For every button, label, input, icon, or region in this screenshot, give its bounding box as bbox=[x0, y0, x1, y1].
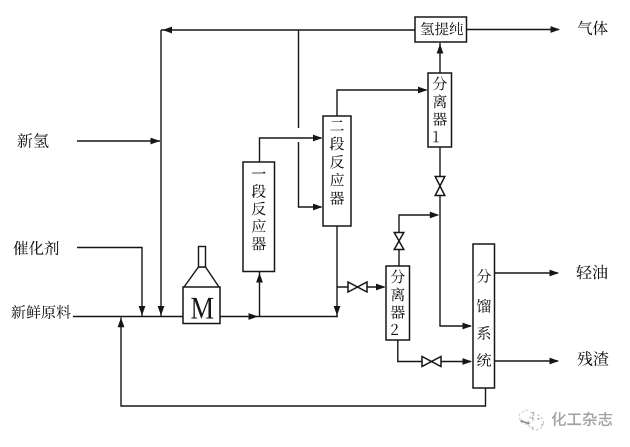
label 催化剂 (catalyst) bbox=[13, 241, 58, 256]
valve on branch to separator 2 bbox=[348, 282, 367, 292]
label 轻油 (light oil) bbox=[577, 265, 608, 280]
mixer M funnel bbox=[184, 267, 219, 287]
arrowhead right fresh hydrogen bbox=[151, 138, 161, 145]
arrowhead right into separator 1 bbox=[418, 87, 428, 94]
fractionation box 分馏系统 bbox=[473, 244, 495, 388]
reactor R1 label bbox=[252, 171, 266, 250]
reactor R1 box 一段反应器 bbox=[243, 162, 275, 272]
wire fractionation bottoms recycle bbox=[121, 318, 486, 407]
mixer M body bbox=[183, 287, 220, 324]
wire S1 bottom to fractionation bbox=[440, 147, 471, 326]
arrowhead right into fractionation lower inlet bbox=[463, 358, 473, 365]
wire S1 top to hydrogen purifier bbox=[439, 43, 441, 73]
wire catalyst feed bbox=[77, 248, 142, 317]
separator S1 label bbox=[433, 77, 447, 143]
arrowhead right light oil bbox=[550, 270, 560, 277]
label 残渣 (residue) bbox=[578, 351, 609, 366]
separator S2 box 分离器2 bbox=[386, 266, 410, 340]
arrowhead up into first reactor bbox=[256, 273, 263, 283]
logo icon bond bbox=[522, 421, 528, 423]
wire light oil outlet bbox=[495, 272, 559, 274]
arrowhead up recycle into feed line bbox=[118, 318, 125, 328]
wire R1 top to R2 inlet bbox=[260, 138, 322, 162]
separator S1 box 分离器1 bbox=[428, 73, 452, 147]
arrowhead right gas outlet bbox=[551, 26, 561, 33]
valve on S2 bottoms line bbox=[422, 357, 441, 367]
label 新鲜原料 (fresh feedstock) bbox=[11, 305, 70, 319]
arrowhead right on mixer outlet bbox=[249, 313, 259, 320]
arrowhead right into R2 upper inlet bbox=[313, 135, 323, 142]
label 新氢 (fresh hydrogen) bbox=[18, 133, 49, 148]
logo icon hexagon ring bbox=[519, 410, 533, 425]
wire purifier to gas outlet bbox=[467, 29, 560, 31]
wire S2 overhead to main line bbox=[399, 215, 437, 266]
arrowhead right S2 overhead joins main line bbox=[430, 212, 440, 219]
hydrogen purifier label bbox=[421, 22, 463, 35]
wire mixer outlet line bbox=[220, 316, 338, 318]
arrowhead right residue bbox=[550, 358, 560, 365]
logo icon atom dots bbox=[520, 412, 543, 429]
arrowhead right into R2 lower inlet bbox=[313, 204, 323, 211]
mixer M neck bbox=[199, 247, 206, 268]
arrowhead right into fractionation upper inlet bbox=[463, 323, 473, 330]
wire S2 bottom to fractionation bbox=[398, 340, 471, 362]
arrowhead down R2 bottom to feed line bbox=[334, 306, 341, 316]
mixer M letter bbox=[191, 298, 213, 319]
arrowhead down catalyst into feed line bbox=[139, 306, 146, 316]
valve above separator 2 bbox=[394, 233, 404, 250]
wire fresh hydrogen feed arrow bbox=[77, 140, 160, 142]
wire fresh feed line into mixer bbox=[73, 316, 183, 318]
separator S2 label bbox=[391, 270, 405, 335]
wire residue outlet bbox=[495, 360, 559, 362]
reactor R2 box 二段反应器 bbox=[323, 116, 351, 226]
label 气体 (gas) bbox=[578, 21, 608, 35]
arrowhead right into separator 2 bbox=[376, 284, 386, 291]
wire R2 top to separator 1 bbox=[337, 90, 427, 116]
fractionation label bbox=[477, 269, 491, 367]
wire hydrogen branch lower segment bbox=[299, 142, 322, 207]
logo icon circle ring bbox=[528, 415, 543, 430]
wire top recycle line bbox=[161, 29, 415, 31]
reactor R2 label bbox=[330, 120, 344, 204]
wire riser into first reactor bbox=[259, 272, 261, 317]
hydrogen purifier box 氢提纯 bbox=[415, 17, 467, 42]
wire left recycle downcomer bbox=[160, 30, 162, 317]
logo text 化工杂志 bbox=[551, 412, 612, 426]
arrowhead up into hydrogen purifier bbox=[437, 44, 444, 54]
wire R2 bottoms branch to separator 2 bbox=[337, 286, 385, 288]
arrowhead down into feed line from recycle bbox=[158, 306, 165, 316]
arrowhead left at top recycle line end bbox=[163, 27, 173, 34]
wire hydrogen branch upper segment bbox=[298, 30, 300, 128]
wire R2 bottom downcomer bbox=[336, 226, 338, 317]
valve below separator 1 bbox=[435, 177, 445, 196]
